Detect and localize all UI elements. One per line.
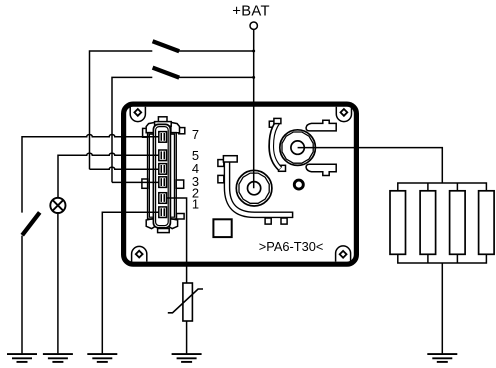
svg-text:7: 7	[192, 127, 199, 142]
bracket clip lower	[306, 164, 336, 175]
junction switch2/+BAT	[252, 76, 255, 79]
lamp H1	[50, 198, 65, 213]
wire thermistor to ground	[186, 321, 188, 353]
wire switch S1 to +BAT	[179, 50, 254, 52]
switch S3 blade	[22, 212, 40, 235]
wire switch S2 to +BAT	[179, 76, 254, 78]
wire S2 left	[112, 77, 152, 182]
thermistor R1	[168, 283, 203, 321]
relay module body	[124, 104, 357, 264]
switch S1 blade	[153, 41, 180, 51]
pin 3	[159, 177, 167, 188]
glow plug bank bottom bus	[398, 254, 487, 263]
wire pin 2 to thermistor	[167, 198, 187, 283]
glow plug E4	[479, 191, 495, 255]
wire pin 1 to ground	[102, 212, 159, 353]
mounting mark top-right	[336, 107, 351, 122]
svg-text:+BAT: +BAT	[232, 4, 270, 20]
ground G2	[43, 354, 73, 362]
wire bank to ground	[441, 263, 443, 353]
wire node B to pin 3	[112, 181, 159, 183]
svg-text:>PA6-T30<: >PA6-T30<	[259, 239, 324, 254]
wire +BAT down to K1	[253, 29, 255, 188]
ground G3	[87, 354, 117, 362]
mounting mark top-left	[130, 107, 145, 122]
pin 4	[159, 164, 167, 175]
pin 5	[159, 150, 167, 161]
connector X1 body	[153, 124, 170, 227]
solenoid K1 mounting band	[218, 156, 293, 224]
pin number labels	[192, 127, 199, 211]
glow plug E2	[420, 191, 436, 255]
wire to pin 7	[22, 135, 159, 213]
wire K2 to glow plug bank	[298, 148, 443, 183]
ground G1	[7, 354, 37, 362]
connector X1 shell	[142, 117, 185, 233]
wire S1 left	[90, 51, 153, 169]
junction switch1/+BAT	[252, 50, 255, 53]
switch S2 blade	[153, 68, 180, 78]
wire S3 to ground	[21, 236, 23, 354]
mounting mark bottom-right	[336, 246, 351, 262]
glow plug bank top bus	[398, 183, 487, 191]
ground G4	[172, 354, 202, 362]
glow plug E3	[450, 191, 466, 255]
pin 2	[159, 193, 167, 204]
solenoid K1 (main relay coil)	[236, 170, 272, 206]
mounting mark bottom-left	[132, 246, 147, 261]
glow plug E1	[390, 191, 406, 255]
indicator ring	[294, 180, 303, 189]
wire lamp to ground	[57, 213, 59, 353]
bracket clip upper	[306, 120, 336, 131]
solenoid K2 mounting band	[269, 118, 285, 171]
+BAT terminal	[250, 22, 257, 29]
wire to pin 5 from lamp	[58, 153, 159, 198]
svg-text:1: 1	[192, 197, 199, 212]
wire node A to pin 4	[90, 167, 159, 169]
pin 1	[159, 207, 167, 218]
component square	[213, 219, 231, 237]
pin 7	[159, 132, 167, 143]
ground G5	[427, 354, 457, 362]
solenoid K2 (second relay coil)	[280, 130, 316, 166]
